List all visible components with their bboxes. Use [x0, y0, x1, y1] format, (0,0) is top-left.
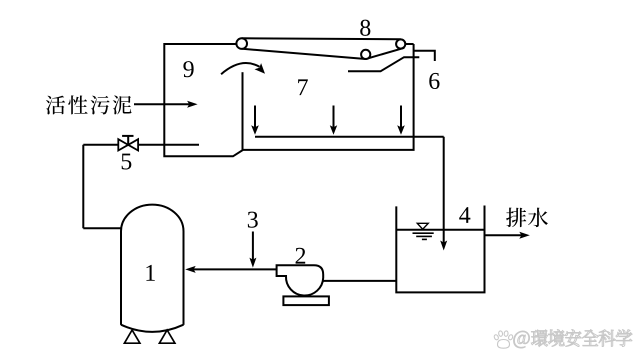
tank 4 water surface line — [396, 229, 484, 231]
watermark paw icon — [494, 331, 514, 349]
digester vessel 1 body — [121, 205, 184, 325]
watermark text 环境安全科学 — [531, 330, 547, 347]
down arrow 1 in compartment 7 — [254, 106, 256, 132]
water level symbol dash 2 — [416, 235, 432, 237]
dosing line 3 (vertical arrow onto pipe) — [252, 232, 254, 264]
label number 3 — [248, 212, 258, 228]
pipe tank 4 to pump P2 — [323, 280, 396, 282]
conveyor belt lower line right segment — [366, 48, 405, 59]
digester leg right — [159, 330, 175, 343]
digester leg left — [124, 330, 139, 343]
pump P2 volute body — [277, 265, 324, 295]
valve V5 stem — [127, 136, 129, 145]
label number 9 — [183, 61, 193, 77]
skimmer scraper plate — [348, 57, 419, 71]
watermark @ sign — [514, 331, 530, 348]
conveyor link to tank wall — [405, 43, 414, 45]
down arrow 2 in compartment 7 — [333, 106, 335, 132]
drain arrow (排水) — [485, 234, 526, 236]
tank T9/T7 outline (aeration tank walls) — [164, 44, 413, 156]
effluent collection pipe (horizontal) — [255, 136, 444, 138]
label number 8 — [360, 20, 370, 36]
pump P2 base plate — [283, 296, 329, 305]
label 活性污泥 (activated sludge) — [46, 96, 65, 115]
label number 4 — [459, 207, 470, 223]
pulley right — [396, 39, 405, 48]
digester vessel 1 bottom dish — [121, 325, 184, 332]
water level symbol dash 1 — [413, 232, 434, 234]
conveyor belt top line (8) — [242, 37, 401, 40]
water level symbol dash 3 — [422, 238, 427, 240]
effluent downcomer pipe to tank 4 — [443, 137, 445, 247]
label 排水 (drainage) — [506, 208, 526, 228]
label number 2 — [296, 248, 306, 264]
label number 7 — [298, 79, 308, 95]
label number 5 — [122, 154, 132, 170]
conveyor belt lower line left segment — [242, 49, 365, 59]
down arrow 3 in compartment 7 — [400, 106, 402, 132]
valve V5 handle bar — [122, 135, 133, 137]
pulley middle — [361, 50, 370, 59]
sludge return pipe into digester 1 — [83, 227, 120, 229]
water level symbol triangle — [417, 223, 428, 229]
partition baffle between compartments 9 and 7 — [242, 72, 244, 150]
influent arrow into compartment 9 — [134, 103, 193, 105]
curved flow arrow from 9 into 7 — [221, 63, 259, 74]
sludge return pipe (horizontal through valve) — [83, 144, 199, 146]
tank 4 walls (open top) — [396, 206, 484, 293]
label number 6 — [429, 73, 439, 89]
label number 1 — [146, 265, 154, 281]
pulley left — [236, 38, 247, 49]
valve V5 bowtie — [118, 139, 138, 150]
sludge return downcomer pipe — [82, 145, 84, 229]
pipe pump P2 to digester 1 — [190, 268, 277, 270]
skimmer bracket (6) — [414, 51, 435, 61]
